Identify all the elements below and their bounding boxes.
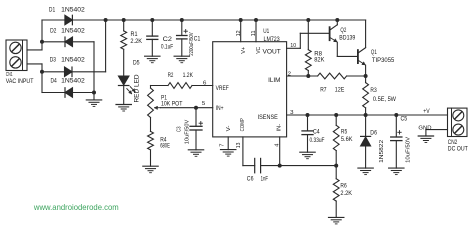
svg-text:Q1: Q1	[371, 49, 377, 56]
svg-text:V+: V+	[241, 46, 247, 54]
svg-text:1N5402: 1N5402	[61, 28, 85, 35]
svg-text:ILIM: ILIM	[268, 77, 280, 84]
svg-text:V-: V-	[226, 126, 232, 132]
svg-text:IN-: IN-	[277, 124, 283, 132]
svg-text:RED LED: RED LED	[135, 74, 141, 103]
svg-text:R1: R1	[131, 31, 138, 38]
svg-text:1.2K: 1.2K	[183, 72, 194, 79]
svg-text:VAC INPUT: VAC INPUT	[6, 78, 34, 85]
svg-text:U1: U1	[263, 28, 269, 35]
svg-text:C4: C4	[313, 129, 320, 136]
svg-text:+V: +V	[423, 108, 430, 115]
svg-text:680E: 680E	[160, 143, 170, 150]
svg-text:C1: C1	[194, 36, 201, 43]
svg-text:VOUT: VOUT	[263, 49, 281, 56]
svg-text:R7: R7	[320, 87, 327, 94]
svg-text:5: 5	[202, 101, 205, 107]
svg-text:R3: R3	[370, 87, 377, 94]
svg-text:R6: R6	[340, 182, 347, 189]
svg-text:1N5822: 1N5822	[379, 140, 385, 163]
svg-text:1N5402: 1N5402	[61, 7, 85, 14]
svg-text:82K: 82K	[314, 57, 325, 64]
svg-text:DC OUT: DC OUT	[448, 146, 468, 153]
svg-text:2.2K: 2.2K	[130, 38, 142, 45]
svg-text:D3: D3	[50, 56, 57, 63]
svg-text:D6: D6	[370, 129, 377, 136]
svg-text:5.6K: 5.6K	[341, 136, 353, 143]
svg-text:11: 11	[251, 30, 257, 36]
svg-text:D1: D1	[49, 7, 56, 14]
svg-text:13: 13	[236, 143, 242, 149]
svg-text:D5: D5	[133, 60, 140, 67]
svg-text:7: 7	[220, 144, 226, 147]
svg-text:VREF: VREF	[216, 85, 229, 92]
svg-text:TIP3055: TIP3055	[372, 57, 395, 64]
svg-text:www.androioderode.com: www.androioderode.com	[33, 202, 119, 212]
svg-text:ISENSE: ISENSE	[258, 114, 279, 121]
svg-text:C2: C2	[163, 36, 173, 43]
svg-text:0.1uF: 0.1uF	[161, 43, 173, 50]
svg-text:C6: C6	[247, 175, 254, 182]
svg-text:C5: C5	[401, 115, 408, 122]
svg-text:IN+: IN+	[216, 105, 224, 112]
svg-text:1nF: 1nF	[261, 175, 268, 182]
svg-text:R2: R2	[168, 72, 174, 79]
svg-text:10uF/50V: 10uF/50V	[406, 136, 412, 163]
svg-text:GND: GND	[418, 125, 431, 131]
svg-text:VC: VC	[256, 47, 262, 54]
svg-text:COMP: COMP	[240, 118, 246, 131]
svg-text:12E: 12E	[335, 87, 345, 94]
svg-text:D4: D4	[51, 78, 58, 85]
svg-text:Q2: Q2	[340, 27, 346, 34]
svg-text:0.5E, 5W: 0.5E, 5W	[373, 96, 397, 103]
svg-text:R5: R5	[341, 129, 348, 136]
svg-text:LM723: LM723	[264, 36, 280, 43]
svg-text:10uF/50V: 10uF/50V	[185, 119, 191, 144]
svg-text:CN1: CN1	[6, 72, 13, 78]
svg-text:2.2K: 2.2K	[340, 190, 352, 197]
svg-text:0.33uF: 0.33uF	[310, 137, 325, 144]
svg-text:1N5402: 1N5402	[61, 78, 85, 85]
svg-text:1N5402: 1N5402	[61, 56, 85, 63]
svg-text:D2: D2	[50, 28, 57, 35]
svg-text:12: 12	[236, 30, 242, 36]
svg-text:C3: C3	[177, 127, 183, 133]
svg-text:BD139: BD139	[339, 35, 355, 42]
svg-text:10K POT: 10K POT	[161, 100, 182, 107]
